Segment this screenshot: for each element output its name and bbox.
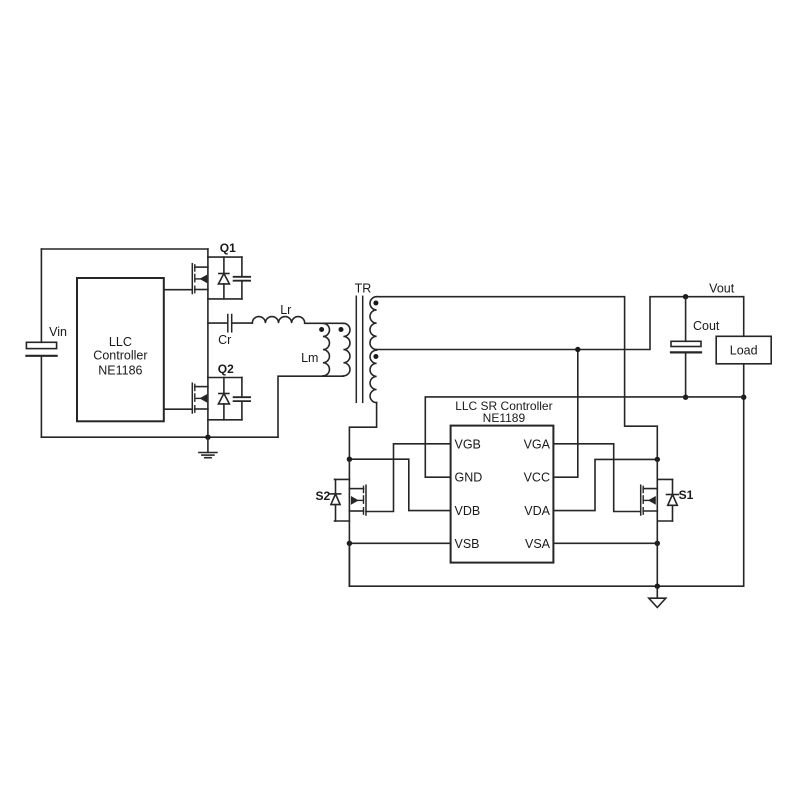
svg-text:Vin: Vin xyxy=(49,325,67,339)
transistor Q2 xyxy=(192,378,242,420)
wire: secondary center tap to Vout xyxy=(377,297,744,350)
capacitor Cr xyxy=(208,315,252,332)
wire: half-bridge switch node vertical xyxy=(207,299,209,378)
svg-text:Cr: Cr xyxy=(218,333,231,347)
node: S2 drain junction xyxy=(347,457,352,462)
load box xyxy=(716,336,771,364)
wire: secondary top terminal to S1 feed xyxy=(377,297,658,460)
diode: Q1 body diode xyxy=(218,257,229,299)
node: S2 source junction xyxy=(347,541,352,546)
svg-text:NE1186: NE1186 xyxy=(98,364,142,378)
wire: VCC to output Vout xyxy=(553,350,577,478)
capacitor Cout xyxy=(671,297,701,398)
inductor Lr xyxy=(252,317,304,324)
wire: Q2 gate wire xyxy=(164,408,193,410)
svg-text:Q2: Q2 xyxy=(218,362,234,376)
wire: Lr to transformer primary top xyxy=(305,322,344,324)
svg-text:VGB: VGB xyxy=(455,437,481,451)
node: Vout-Cout junction xyxy=(683,294,688,299)
svg-text:Lr: Lr xyxy=(280,303,291,317)
node: S1 drain junction xyxy=(655,457,660,462)
capacitor Vin xyxy=(26,342,56,437)
label LLC Controller NE1186 xyxy=(93,335,147,378)
svg-text:S1: S1 xyxy=(679,488,694,502)
transformer TR primary winding xyxy=(343,323,350,376)
svg-text:NE1189: NE1189 xyxy=(483,411,526,425)
diode: S1 body diode xyxy=(667,479,679,521)
svg-text:LLC: LLC xyxy=(109,335,132,349)
wire: Q1 gate wire xyxy=(164,289,193,291)
svg-text:VDB: VDB xyxy=(455,504,481,518)
op-amp U2: LLC SR Controller NE1189 box xyxy=(451,426,554,563)
svg-text:S2: S2 xyxy=(315,489,330,503)
wire: secondary ground rail xyxy=(349,543,743,586)
wire: primary bottom return xyxy=(278,376,343,437)
node: secondary bottom dot xyxy=(373,354,378,359)
capacitor: Q2 parallel capacitor xyxy=(234,378,251,420)
node: Lm dot xyxy=(319,327,324,332)
svg-text:VCC: VCC xyxy=(524,471,550,485)
node: secondary ground junction xyxy=(655,584,660,589)
svg-text:VSA: VSA xyxy=(525,537,551,551)
wire: input bottom rail xyxy=(41,436,278,438)
node: Cout bottom junction xyxy=(683,395,688,400)
transistor S2 xyxy=(335,459,367,586)
svg-text:Load: Load xyxy=(730,344,758,358)
svg-text:VSB: VSB xyxy=(455,537,480,551)
transistor S1 xyxy=(641,459,673,586)
wire: VDB to S2 drain sense xyxy=(349,459,450,510)
wire: VDA to S1 drain sense xyxy=(553,459,657,510)
node: primary ground junction xyxy=(205,435,210,440)
op-amp U1: LLC Controller NE1186 box xyxy=(77,278,164,421)
wire: GND loop to output return xyxy=(425,397,743,477)
wire: Q1 drain stub xyxy=(207,249,209,257)
transformer TR secondary bottom winding xyxy=(370,350,377,402)
wire: input left vertical (Vin top lead) xyxy=(40,249,42,342)
diode: Q2 body diode xyxy=(218,378,229,420)
node: primary winding dot xyxy=(339,327,344,332)
diode: S2 body diode xyxy=(330,479,340,521)
svg-text:TR: TR xyxy=(355,282,372,296)
svg-text:Lm: Lm xyxy=(301,351,318,365)
wire: Load top stub xyxy=(743,297,745,337)
ground: signal ground symbol (secondary side) xyxy=(649,586,666,607)
svg-text:GND: GND xyxy=(455,471,483,485)
svg-text:VDA: VDA xyxy=(524,504,550,518)
wire: VSA to S1 source xyxy=(553,542,657,544)
svg-text:VGA: VGA xyxy=(524,437,551,451)
svg-text:Controller: Controller xyxy=(93,349,147,363)
wire: secondary bottom terminal to S2 drain xyxy=(349,403,376,460)
svg-text:Vout: Vout xyxy=(709,282,735,296)
label LLC SR Controller NE1189 xyxy=(455,399,552,425)
node: Load-GND junction xyxy=(741,395,746,400)
wire: VGB to S2 gate xyxy=(366,444,451,512)
node: VCC-Vout junction xyxy=(575,347,580,352)
transistor Q1 xyxy=(192,257,242,299)
svg-text:Q1: Q1 xyxy=(220,241,236,255)
wire: input top rail xyxy=(41,248,208,250)
wire: VGA to S1 gate xyxy=(553,444,640,512)
wire: VSB to S2 source xyxy=(349,542,450,544)
node: secondary top dot xyxy=(373,301,378,306)
wire: Q2 source to ground rail xyxy=(207,420,209,437)
svg-text:Cout: Cout xyxy=(693,319,720,333)
inductor Lm (magnetizing inductance) xyxy=(323,323,330,376)
transformer TR secondary top winding xyxy=(370,297,377,350)
ground: earth ground symbol (primary side) xyxy=(199,437,217,458)
transformer TR core xyxy=(356,296,362,402)
capacitor: Q1 parallel capacitor xyxy=(234,257,251,299)
wire: Load bottom to ground rail xyxy=(743,364,745,586)
node: S1 source junction xyxy=(655,541,660,546)
